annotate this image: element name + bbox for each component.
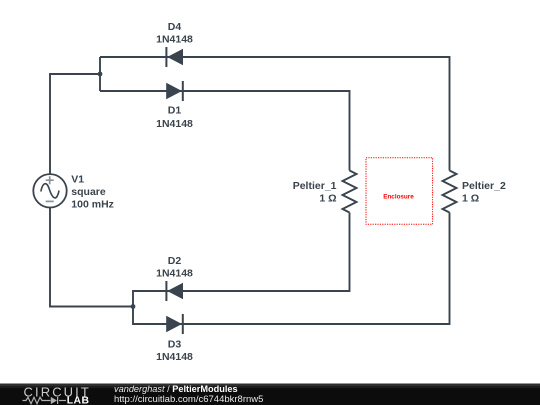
- svg-text:LAB: LAB: [67, 395, 90, 405]
- svg-text:1N4148: 1N4148: [156, 268, 193, 280]
- svg-text:100 mHz: 100 mHz: [71, 199, 114, 211]
- svg-text:D3: D3: [168, 338, 182, 350]
- svg-text:1 Ω: 1 Ω: [319, 192, 336, 204]
- svg-text:Enclosure: Enclosure: [383, 193, 414, 200]
- svg-text:D2: D2: [168, 255, 182, 267]
- svg-text:http://circuitlab.com/c6744bkr: http://circuitlab.com/c6744bkr8rnw5: [114, 394, 263, 405]
- svg-text:Peltier_2: Peltier_2: [462, 180, 506, 192]
- svg-text:D1: D1: [168, 105, 182, 117]
- svg-text:1N4148: 1N4148: [156, 34, 193, 46]
- svg-text:square: square: [71, 186, 106, 198]
- svg-text:V1: V1: [71, 174, 84, 186]
- svg-text:D4: D4: [168, 21, 182, 33]
- svg-text:vanderghast / PeltierModules: vanderghast / PeltierModules: [114, 384, 238, 394]
- svg-text:1N4148: 1N4148: [156, 351, 193, 363]
- svg-text:1N4148: 1N4148: [156, 118, 193, 130]
- svg-text:Peltier_1: Peltier_1: [293, 180, 337, 192]
- svg-text:1 Ω: 1 Ω: [462, 192, 479, 204]
